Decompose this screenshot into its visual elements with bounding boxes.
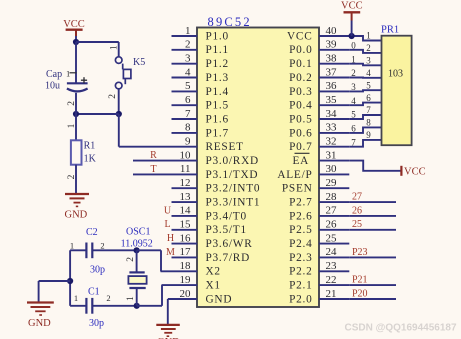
- svg-text:38: 38: [326, 53, 338, 65]
- svg-text:C2: C2: [86, 227, 98, 238]
- svg-text:25: 25: [326, 232, 338, 244]
- svg-text:0: 0: [351, 40, 356, 50]
- svg-text:36: 36: [326, 80, 338, 92]
- svg-text:7: 7: [185, 108, 191, 120]
- svg-text:K5: K5: [133, 57, 145, 68]
- svg-text:3: 3: [185, 53, 191, 65]
- svg-text:13: 13: [180, 191, 192, 203]
- svg-text:2: 2: [67, 101, 77, 106]
- svg-text:2: 2: [100, 240, 104, 250]
- svg-text:P0.2: P0.2: [289, 72, 312, 84]
- svg-text:6: 6: [185, 94, 191, 106]
- svg-text:2: 2: [185, 39, 191, 51]
- svg-text:1: 1: [74, 293, 78, 303]
- svg-text:P3.4/T0: P3.4/T0: [206, 210, 247, 222]
- svg-text:P2.2: P2.2: [289, 266, 312, 278]
- svg-text:1: 1: [66, 69, 70, 79]
- svg-text:18: 18: [180, 260, 192, 272]
- svg-text:9: 9: [366, 130, 371, 140]
- svg-text:8: 8: [366, 118, 371, 128]
- svg-text:12: 12: [180, 177, 191, 189]
- svg-text:15: 15: [180, 219, 192, 231]
- svg-text:P1.4: P1.4: [206, 86, 229, 98]
- svg-text:23: 23: [326, 260, 338, 272]
- svg-text:P0.0: P0.0: [289, 44, 312, 56]
- svg-text:P3.6/WR: P3.6/WR: [206, 238, 253, 250]
- svg-text:1: 1: [185, 25, 191, 37]
- svg-text:P1.7: P1.7: [206, 127, 229, 139]
- svg-text:R1: R1: [84, 140, 96, 151]
- svg-text:5: 5: [366, 80, 371, 90]
- svg-text:P2.5: P2.5: [289, 224, 312, 236]
- svg-text:P3.3/INT1: P3.3/INT1: [206, 197, 261, 209]
- svg-text:11: 11: [180, 163, 191, 175]
- svg-text:27: 27: [352, 192, 362, 203]
- svg-text:25: 25: [352, 219, 362, 230]
- svg-text:P23: P23: [352, 247, 368, 258]
- svg-text:1K: 1K: [84, 154, 97, 165]
- svg-text:4: 4: [185, 66, 191, 78]
- svg-text:P1.3: P1.3: [206, 72, 229, 84]
- svg-text:Cap: Cap: [46, 69, 62, 80]
- svg-text:24: 24: [326, 246, 338, 258]
- svg-text:P1.1: P1.1: [206, 44, 229, 56]
- svg-text:P3.1/TXD: P3.1/TXD: [206, 169, 259, 181]
- svg-text:14: 14: [180, 205, 192, 217]
- svg-text:3: 3: [366, 56, 371, 66]
- svg-text:OSC1: OSC1: [126, 226, 150, 237]
- svg-text:10: 10: [180, 149, 192, 161]
- svg-text:5: 5: [185, 80, 191, 92]
- svg-text:6: 6: [351, 124, 356, 134]
- svg-text:2: 2: [366, 43, 371, 53]
- svg-text:P1.2: P1.2: [206, 58, 229, 70]
- svg-text:P2.7: P2.7: [289, 197, 312, 209]
- svg-text:22: 22: [326, 274, 337, 286]
- svg-text:P3.2/INT0: P3.2/INT0: [206, 183, 261, 195]
- svg-text:34: 34: [326, 108, 338, 120]
- svg-text:GND: GND: [65, 210, 88, 221]
- svg-text:GND: GND: [206, 293, 233, 305]
- svg-text:P2.3: P2.3: [289, 252, 312, 264]
- svg-text:EA: EA: [292, 155, 309, 167]
- svg-text:P20: P20: [352, 288, 368, 299]
- svg-text:89C52: 89C52: [208, 15, 252, 29]
- svg-text:P0.3: P0.3: [289, 86, 312, 98]
- svg-text:VCC: VCC: [341, 1, 363, 12]
- svg-text:26: 26: [326, 219, 338, 231]
- svg-text:P1.5: P1.5: [206, 100, 229, 112]
- svg-text:RESET: RESET: [206, 141, 244, 153]
- svg-text:X1: X1: [206, 280, 221, 292]
- svg-text:2: 2: [351, 68, 356, 78]
- svg-text:103: 103: [388, 69, 403, 80]
- svg-text:4: 4: [351, 96, 356, 106]
- svg-text:1: 1: [351, 54, 356, 64]
- svg-text:P0.7: P0.7: [289, 141, 312, 153]
- svg-text:2: 2: [106, 293, 110, 303]
- svg-text:T: T: [150, 164, 156, 175]
- svg-text:U: U: [164, 205, 172, 216]
- svg-text:4: 4: [366, 68, 371, 78]
- svg-text:17: 17: [180, 246, 192, 258]
- svg-text:7: 7: [366, 105, 371, 115]
- svg-text:H: H: [167, 233, 174, 244]
- svg-text:P3.5/T1: P3.5/T1: [206, 224, 247, 236]
- svg-text:19: 19: [180, 274, 192, 286]
- svg-text:28: 28: [326, 191, 338, 203]
- svg-text:9: 9: [185, 136, 191, 148]
- svg-text:5: 5: [351, 110, 356, 120]
- svg-text:L: L: [164, 219, 170, 230]
- svg-text:33: 33: [326, 122, 338, 134]
- svg-text:P3.7/RD: P3.7/RD: [206, 252, 251, 264]
- svg-text:8: 8: [185, 122, 191, 134]
- svg-text:6: 6: [366, 93, 371, 103]
- svg-text:39: 39: [326, 39, 338, 51]
- svg-text:30: 30: [326, 163, 338, 175]
- svg-text:P0.4: P0.4: [289, 100, 312, 112]
- svg-text:1: 1: [366, 31, 371, 41]
- svg-text:11.0952: 11.0952: [121, 239, 153, 250]
- svg-text:2: 2: [67, 174, 77, 179]
- svg-text:7: 7: [351, 137, 356, 147]
- svg-text:VCC: VCC: [287, 30, 312, 42]
- svg-text:PSEN: PSEN: [282, 183, 313, 195]
- svg-text:P2.6: P2.6: [289, 210, 312, 222]
- svg-text:ALE/P: ALE/P: [277, 169, 312, 181]
- svg-text:P2.4: P2.4: [289, 238, 312, 250]
- svg-text:3: 3: [351, 82, 356, 92]
- svg-text:P2.0: P2.0: [289, 293, 312, 305]
- svg-text:P1.0: P1.0: [206, 30, 229, 42]
- svg-text:P1.6: P1.6: [206, 113, 229, 125]
- svg-text:30p: 30p: [90, 265, 105, 276]
- svg-text:35: 35: [326, 94, 338, 106]
- svg-text:27: 27: [326, 205, 338, 217]
- svg-text:CSDN @QQ1694456187: CSDN @QQ1694456187: [345, 323, 457, 334]
- svg-text:M: M: [166, 247, 175, 258]
- svg-text:P2.1: P2.1: [289, 280, 312, 292]
- svg-text:P21: P21: [352, 275, 368, 286]
- svg-text:2: 2: [126, 257, 136, 262]
- svg-text:31: 31: [326, 149, 337, 161]
- svg-text:PR1: PR1: [381, 25, 399, 36]
- svg-text:20: 20: [180, 288, 192, 300]
- svg-text:29: 29: [326, 177, 338, 189]
- svg-text:32: 32: [326, 136, 337, 148]
- svg-text:26: 26: [352, 205, 362, 216]
- svg-text:1: 1: [126, 296, 136, 301]
- svg-text:GND: GND: [28, 318, 51, 329]
- svg-text:1: 1: [109, 45, 119, 50]
- svg-text:40: 40: [326, 25, 338, 37]
- svg-text:37: 37: [326, 66, 338, 78]
- svg-text:16: 16: [180, 232, 192, 244]
- svg-text:P0.1: P0.1: [289, 58, 312, 70]
- svg-text:1: 1: [67, 123, 77, 128]
- svg-text:10u: 10u: [45, 80, 60, 91]
- svg-text:30p: 30p: [89, 318, 104, 329]
- svg-text:1: 1: [70, 240, 74, 250]
- svg-text:VCC: VCC: [404, 166, 426, 177]
- svg-text:P0.5: P0.5: [289, 113, 312, 125]
- svg-text:21: 21: [326, 288, 337, 300]
- svg-text:P3.0/RXD: P3.0/RXD: [206, 155, 259, 167]
- svg-text:C1: C1: [88, 287, 100, 298]
- svg-text:R: R: [150, 150, 157, 161]
- svg-text:P0.6: P0.6: [289, 127, 312, 139]
- svg-text:2: 2: [108, 94, 118, 99]
- svg-text:X2: X2: [206, 266, 221, 278]
